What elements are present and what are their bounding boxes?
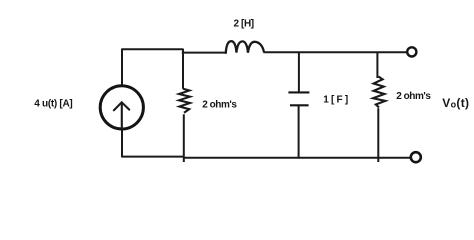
svg-text:2 ohm's: 2 ohm's (202, 99, 237, 110)
svg-text:2 ohm's: 2 ohm's (396, 91, 431, 102)
svg-text:4 u(t) [A]: 4 u(t) [A] (34, 99, 72, 110)
svg-text:2 [H]: 2 [H] (234, 18, 254, 29)
svg-text:Vo(t): Vo(t) (442, 96, 469, 110)
svg-text:1 [ F ]: 1 [ F ] (323, 95, 348, 106)
